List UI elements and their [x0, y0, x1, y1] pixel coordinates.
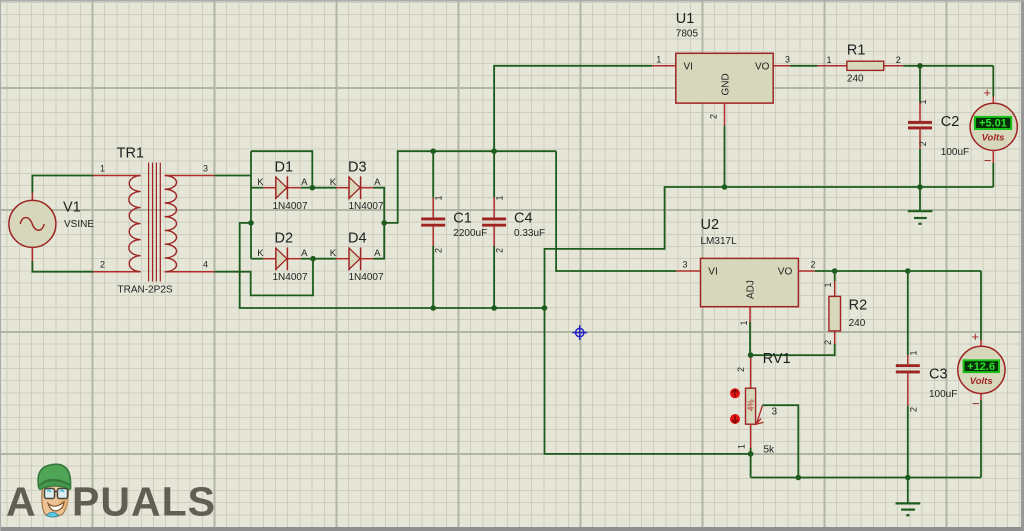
- wire voltmeter1 bottom to ground line: [992, 163, 994, 187]
- regulator U1 7805: [652, 11, 790, 126]
- svg-text:A: A: [301, 248, 308, 259]
- wire top bus corner down to U2 VI: [556, 151, 676, 271]
- svg-text:VI: VI: [708, 267, 717, 278]
- resistor R2: [823, 271, 867, 345]
- svg-text:240: 240: [847, 74, 864, 85]
- svg-text:C3: C3: [929, 367, 948, 383]
- TR1 pin 4: [165, 271, 215, 273]
- wire top-left jog to D1 anode: [251, 151, 312, 188]
- canvas edges: [0, 527, 1024, 531]
- RV1 adjust buttons: [730, 388, 740, 398]
- diode D3: [330, 160, 384, 213]
- svg-text:2200uF: 2200uF: [453, 228, 487, 239]
- svg-text:3: 3: [683, 260, 688, 270]
- svg-text:K: K: [257, 177, 264, 188]
- wire RV1 bottom to bus: [750, 448, 752, 478]
- svg-text:+5.01: +5.01: [979, 118, 1007, 130]
- svg-text:100uF: 100uF: [929, 389, 957, 400]
- svg-text:−: −: [972, 396, 980, 411]
- svg-text:4: 4: [203, 260, 208, 270]
- svg-text:U1: U1: [676, 11, 695, 27]
- svg-text:+12.6: +12.6: [967, 361, 995, 373]
- svg-text:U2: U2: [701, 217, 720, 233]
- ground symbol under C2: [908, 187, 933, 224]
- svg-text:2: 2: [823, 340, 833, 345]
- wire V1 bottom to TR1 pin2: [32, 261, 93, 272]
- wire D3 anode to +node: [373, 188, 384, 223]
- svg-text:1: 1: [494, 195, 504, 200]
- svg-text:1: 1: [434, 195, 444, 200]
- wire U2 ADJ down: [749, 322, 751, 355]
- diode D1: [257, 160, 308, 212]
- RV1 wiper arrow: [757, 406, 763, 424]
- potentiometer RV1: [730, 351, 791, 456]
- wire down to voltmeter1: [992, 66, 994, 97]
- svg-text:1: 1: [827, 55, 832, 65]
- capacitor C1: [421, 151, 487, 308]
- svg-text:1: 1: [100, 164, 105, 174]
- svg-text:2: 2: [736, 367, 746, 372]
- wire R1 to C2 node and voltmeter: [903, 65, 993, 67]
- wire D2 row: [251, 258, 263, 260]
- svg-text:+: +: [972, 329, 980, 344]
- capacitor C4: [482, 151, 545, 308]
- svg-text:K: K: [330, 177, 337, 188]
- diode D2: [257, 231, 308, 283]
- svg-text:LM317L: LM317L: [701, 236, 738, 247]
- TR1 core: [149, 163, 161, 282]
- svg-text:2: 2: [494, 248, 504, 253]
- svg-text:2: 2: [811, 260, 816, 270]
- svg-text:−: −: [984, 153, 992, 168]
- svg-text:D2: D2: [275, 231, 294, 247]
- svg-text:R2: R2: [849, 298, 868, 314]
- wire R2 bottom to ADJ node: [750, 344, 835, 355]
- TR1 pin 1: [93, 175, 141, 177]
- svg-text:A: A: [301, 177, 308, 188]
- mascot beanie: [38, 464, 70, 486]
- svg-text:C2: C2: [941, 114, 960, 130]
- svg-text:4%: 4%: [747, 399, 756, 411]
- svg-text:2: 2: [100, 260, 105, 270]
- svg-text:1: 1: [823, 282, 833, 287]
- svg-text:1N4007: 1N4007: [349, 272, 384, 283]
- svg-text:A: A: [6, 479, 37, 525]
- wire U1 VO to R1: [790, 65, 817, 67]
- svg-text:2: 2: [918, 141, 928, 146]
- svg-text:1N4007: 1N4007: [273, 272, 308, 283]
- svg-text:1N4007: 1N4007: [349, 201, 384, 212]
- Appuals watermark logo: [6, 464, 216, 524]
- svg-text:2: 2: [709, 114, 719, 119]
- wire D4 anode to +node: [373, 223, 384, 259]
- svg-text:2: 2: [909, 407, 919, 412]
- wire down to voltmeter2: [980, 271, 982, 340]
- TR1 pin 3: [165, 175, 215, 177]
- svg-text:2: 2: [896, 55, 901, 65]
- wire TR1 pin3 to node: [214, 175, 251, 177]
- ground symbol bottom: [896, 478, 921, 516]
- svg-text:A: A: [374, 248, 381, 259]
- svg-text:D4: D4: [348, 231, 367, 247]
- mascot face: [42, 480, 69, 517]
- svg-text:K: K: [330, 248, 337, 259]
- wire voltmeter2 bottom to bus: [980, 400, 982, 478]
- svg-text:Volts: Volts: [970, 376, 993, 387]
- svg-text:VO: VO: [778, 267, 793, 278]
- svg-text:TR1: TR1: [117, 146, 144, 162]
- voltmeter V=+5.01: [970, 85, 1017, 168]
- svg-text:VSINE: VSINE: [64, 219, 94, 230]
- capacitor C2: [908, 66, 969, 187]
- svg-text:K: K: [257, 248, 264, 259]
- wire V1 top to TR1 pin1: [32, 176, 93, 193]
- svg-text:D1: D1: [275, 160, 294, 176]
- svg-text:0.33uF: 0.33uF: [514, 228, 545, 239]
- svg-text:1: 1: [739, 320, 749, 325]
- svg-text:C1: C1: [453, 211, 472, 227]
- wire top bus to U1 VI: [494, 66, 652, 151]
- wire TR1 pin4 under-jog to D2 anode: [214, 259, 313, 296]
- wire U1 GND down to ground line: [724, 126, 726, 187]
- wire +node up to top bus: [384, 151, 556, 223]
- svg-text:+: +: [983, 85, 991, 100]
- origin marker: [572, 325, 587, 340]
- diode D4: [330, 231, 384, 284]
- svg-text:240: 240: [849, 318, 866, 329]
- svg-text:5k: 5k: [764, 445, 776, 456]
- svg-text:2: 2: [434, 248, 444, 253]
- TR1 pin 2: [93, 271, 141, 273]
- regulator U2 LM317L: [676, 217, 815, 326]
- svg-text:GND: GND: [720, 73, 731, 95]
- svg-text:VI: VI: [684, 62, 693, 73]
- svg-text:1N4007: 1N4007: [273, 201, 308, 212]
- svg-text:100uF: 100uF: [941, 147, 969, 158]
- svg-text:ADJ: ADJ: [746, 280, 757, 299]
- svg-text:7805: 7805: [676, 28, 699, 39]
- wire jog to bottom bus: [240, 223, 545, 308]
- wire D1 row: [251, 187, 263, 189]
- svg-text:RV1: RV1: [763, 351, 791, 367]
- voltmeter V=+12.6: [958, 329, 1005, 411]
- svg-text:C4: C4: [514, 211, 533, 227]
- svg-text:A: A: [374, 177, 381, 188]
- wire RV1 wiper to bottom bus: [762, 405, 798, 477]
- svg-text:PUALS: PUALS: [72, 479, 216, 525]
- svg-text:V1: V1: [63, 200, 81, 216]
- transformer TR1: [93, 146, 214, 296]
- capacitor C3: [896, 271, 958, 478]
- wire left vertical bus: [250, 151, 252, 259]
- TR1 primary coil: [129, 176, 141, 272]
- svg-text:D3: D3: [348, 160, 367, 176]
- bottom bus: [751, 477, 981, 479]
- ground return line: [545, 187, 994, 454]
- resistor R1: [817, 43, 903, 85]
- wire U2 VO rail: [815, 270, 981, 272]
- V1 sine source: [9, 193, 94, 262]
- svg-text:3: 3: [203, 164, 208, 174]
- svg-text:1: 1: [909, 350, 919, 355]
- svg-text:Volts: Volts: [982, 133, 1005, 144]
- mascot smile: [48, 502, 64, 511]
- svg-text:VO: VO: [755, 62, 770, 73]
- svg-text:3: 3: [785, 55, 790, 65]
- svg-text:1: 1: [918, 99, 928, 104]
- svg-text:1: 1: [656, 55, 661, 65]
- mascot glasses: [55, 491, 58, 494]
- svg-text:TRAN-2P2S: TRAN-2P2S: [118, 285, 173, 296]
- TR1 secondary coil: [165, 175, 177, 271]
- svg-text:3: 3: [772, 407, 778, 418]
- svg-text:R1: R1: [847, 43, 866, 59]
- svg-text:1: 1: [737, 444, 747, 449]
